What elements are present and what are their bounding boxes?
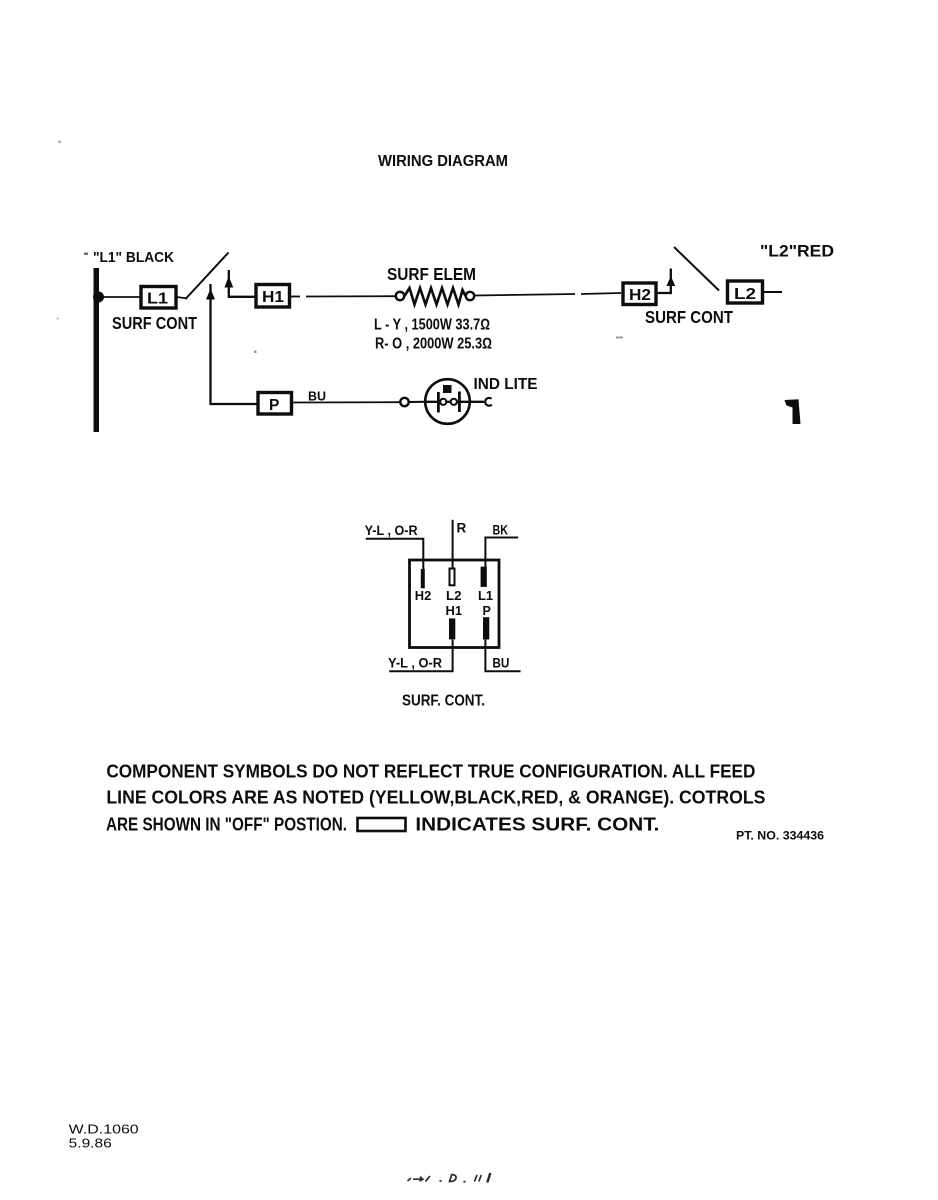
- wire P to lamp terminal: [293, 401, 400, 403]
- svg-text:COMPONENT SYMBOLS DO NOT REFLE: COMPONENT SYMBOLS DO NOT REFLECT TRUE CO…: [106, 762, 755, 782]
- pilot relay P box: [258, 393, 292, 415]
- svg-text:L2: L2: [446, 589, 462, 603]
- scan speck dot mid: [254, 351, 257, 354]
- wire surf elem to H2: [474, 294, 575, 296]
- printing artifact (7-shaped mark): [785, 399, 801, 424]
- scan speck left 2: [57, 318, 60, 320]
- svg-text:"L1" BLACK: "L1" BLACK: [93, 250, 174, 266]
- contact L1 (surf cont box): [141, 287, 176, 309]
- svg-text:H2: H2: [415, 589, 432, 603]
- svg-text:H1: H1: [262, 289, 284, 306]
- svg-text:P: P: [269, 397, 279, 414]
- svg-text:Y-L , O-R: Y-L , O-R: [365, 523, 418, 538]
- junction dot on L1 feed: [93, 292, 104, 303]
- scan speck left 1: [58, 141, 61, 144]
- svg-text:PT. NO. 334436: PT. NO. 334436: [736, 829, 824, 843]
- connector block SURF CONT: [410, 560, 500, 648]
- svg-text:ARE SHOWN IN "OFF" POSTION.: ARE SHOWN IN "OFF" POSTION.: [106, 815, 347, 835]
- switch blade L2 (open): [674, 247, 719, 291]
- svg-text:WIRING DIAGRAM: WIRING DIAGRAM: [378, 153, 508, 170]
- terminal L1: [481, 567, 487, 587]
- wire L2 stub: [764, 291, 782, 293]
- svg-text:W.D.1060: W.D.1060: [69, 1122, 139, 1137]
- wire R: [452, 520, 454, 569]
- wire terminal to lamp: [409, 401, 427, 403]
- terminal L2 (open): [450, 569, 455, 586]
- svg-text:SURF CONT: SURF CONT: [645, 307, 733, 327]
- svg-text:L2: L2: [734, 286, 756, 303]
- svg-text:BU: BU: [492, 656, 509, 671]
- svg-text:SURF. CONT.: SURF. CONT.: [402, 693, 485, 710]
- svg-text:R: R: [457, 521, 467, 536]
- terminal P: [483, 617, 489, 639]
- svg-text:H2: H2: [629, 287, 651, 304]
- svg-text:IND LITE: IND LITE: [474, 376, 538, 393]
- wire H2 to switch contact + arrow up: [658, 269, 671, 294]
- svg-text:BU: BU: [308, 389, 326, 404]
- net L1 feed line (black, thick vertical): [94, 268, 100, 432]
- svg-text:L1: L1: [478, 589, 493, 603]
- scan tick before L1 label: [84, 253, 88, 256]
- switch blade L1 (open): [186, 253, 229, 300]
- switch contact arrow to P branch + wire down to P: [211, 284, 257, 404]
- wire Y-L,O-R top left: [366, 539, 424, 569]
- svg-text:BK: BK: [493, 523, 509, 538]
- svg-text:5.9.86: 5.9.86: [69, 1136, 112, 1151]
- surf elem right terminal: [466, 292, 474, 300]
- wire BU bottom: [485, 640, 520, 672]
- svg-text:R- O , 2000W 25.3Ω: R- O , 2000W 25.3Ω: [375, 336, 492, 353]
- svg-text:"L2"RED: "L2"RED: [760, 243, 834, 261]
- terminal H2: [421, 569, 425, 588]
- svg-text:SURF CONT: SURF CONT: [112, 313, 197, 333]
- ind lite open terminal: [485, 398, 492, 406]
- surf elem left terminal: [396, 292, 404, 300]
- handwritten mark: [408, 1173, 491, 1183]
- lamp feed terminal: [400, 398, 408, 406]
- svg-text:L - Y , 1500W 33.7Ω: L - Y , 1500W 33.7Ω: [374, 317, 490, 334]
- surf elem resistor zigzag: [405, 288, 466, 305]
- svg-text:INDICATES SURF. CONT.: INDICATES SURF. CONT.: [415, 815, 659, 835]
- surf cont legend box: [358, 818, 406, 831]
- indicator lamp IND LITE: [425, 379, 484, 424]
- svg-text:H1: H1: [446, 604, 463, 618]
- wire Y-L,O-R bottom: [389, 640, 452, 672]
- scan speck dash near H2: [616, 337, 623, 339]
- heater element H2 box: [623, 283, 656, 305]
- heater element H1 box: [256, 285, 290, 308]
- wire L1 to switch pivot: [177, 297, 187, 299]
- svg-text:SURF ELEM: SURF ELEM: [387, 264, 476, 284]
- switch contact arrow to H1 + wire to H1: [229, 270, 255, 297]
- wire feed to L1 box: [98, 296, 140, 298]
- svg-text:P: P: [483, 604, 491, 618]
- svg-text:Y-L , O-R: Y-L , O-R: [388, 656, 442, 671]
- svg-text:L1: L1: [147, 291, 168, 308]
- wire H1 to surf elem: [291, 296, 300, 298]
- terminal H1: [449, 618, 455, 639]
- contact L2 (surf cont box): [728, 281, 763, 303]
- svg-text:LINE COLORS ARE AS NOTED (YELL: LINE COLORS ARE AS NOTED (YELLOW,BLACK,R…: [106, 788, 765, 808]
- wire BK: [485, 538, 518, 567]
